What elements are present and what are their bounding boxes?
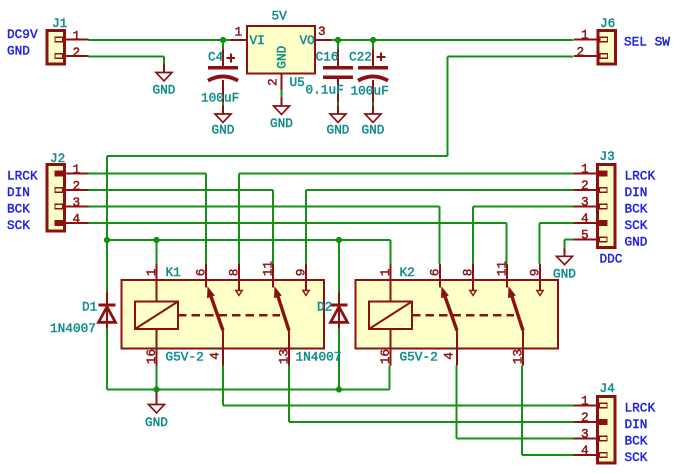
svg-text:5: 5 bbox=[581, 228, 589, 243]
svg-text:1N4007: 1N4007 bbox=[50, 321, 96, 336]
svg-text:G5V-2: G5V-2 bbox=[400, 349, 438, 364]
svg-text:1: 1 bbox=[581, 394, 589, 409]
svg-text:DIN: DIN bbox=[7, 185, 30, 200]
svg-text:G5V-2: G5V-2 bbox=[166, 349, 204, 364]
svg-text:1: 1 bbox=[581, 28, 589, 43]
svg-text:DC9V: DC9V bbox=[7, 27, 38, 42]
svg-text:11: 11 bbox=[495, 261, 510, 277]
svg-text:GND: GND bbox=[7, 43, 30, 58]
svg-text:9: 9 bbox=[294, 269, 309, 277]
svg-text:1: 1 bbox=[378, 268, 393, 276]
svg-text:3: 3 bbox=[581, 427, 589, 442]
svg-text:1: 1 bbox=[581, 162, 589, 177]
svg-text:0.1uF: 0.1uF bbox=[306, 83, 344, 98]
svg-text:1: 1 bbox=[73, 29, 81, 44]
svg-text:LRCK: LRCK bbox=[625, 400, 656, 415]
svg-text:DIN: DIN bbox=[625, 417, 648, 432]
svg-text:1N4007: 1N4007 bbox=[296, 349, 342, 364]
svg-text:C22: C22 bbox=[349, 49, 372, 64]
svg-text:LRCK: LRCK bbox=[625, 168, 656, 183]
svg-text:2: 2 bbox=[577, 45, 585, 60]
svg-text:100uF: 100uF bbox=[201, 91, 239, 106]
svg-text:GND: GND bbox=[327, 123, 350, 138]
svg-text:VO: VO bbox=[300, 33, 316, 48]
svg-text:J2: J2 bbox=[50, 151, 65, 166]
svg-text:C4: C4 bbox=[208, 49, 223, 64]
svg-text:6: 6 bbox=[428, 269, 443, 277]
svg-text:D1: D1 bbox=[82, 300, 98, 315]
svg-text:GND: GND bbox=[145, 415, 168, 430]
svg-text:4: 4 bbox=[442, 352, 457, 360]
svg-text:9: 9 bbox=[528, 269, 543, 277]
svg-text:4: 4 bbox=[581, 443, 589, 458]
svg-text:2: 2 bbox=[581, 178, 589, 193]
svg-text:13: 13 bbox=[511, 349, 526, 364]
svg-text:2: 2 bbox=[581, 410, 589, 425]
svg-text:16: 16 bbox=[144, 349, 159, 364]
svg-text:2: 2 bbox=[73, 45, 81, 60]
svg-text:GND: GND bbox=[212, 123, 235, 138]
svg-text:DDC: DDC bbox=[600, 251, 623, 266]
svg-text:C16: C16 bbox=[316, 49, 339, 64]
svg-text:SEL SW: SEL SW bbox=[624, 34, 670, 49]
svg-text:GND: GND bbox=[270, 116, 293, 131]
svg-text:11: 11 bbox=[261, 261, 276, 277]
svg-text:BCK: BCK bbox=[625, 433, 648, 448]
svg-text:BCK: BCK bbox=[625, 201, 648, 216]
svg-text:J4: J4 bbox=[600, 381, 615, 396]
svg-text:J3: J3 bbox=[600, 149, 615, 164]
svg-text:2: 2 bbox=[266, 78, 281, 86]
svg-text:GND: GND bbox=[625, 234, 648, 249]
svg-text:6: 6 bbox=[194, 269, 209, 277]
svg-text:LRCK: LRCK bbox=[7, 168, 38, 183]
svg-text:8: 8 bbox=[461, 269, 476, 277]
svg-text:GND: GND bbox=[362, 123, 385, 138]
svg-text:4: 4 bbox=[581, 211, 589, 226]
svg-text:8: 8 bbox=[227, 269, 242, 277]
svg-text:SCK: SCK bbox=[625, 450, 648, 465]
svg-text:3: 3 bbox=[318, 24, 326, 39]
svg-text:SCK: SCK bbox=[7, 218, 30, 233]
svg-text:K1: K1 bbox=[166, 265, 182, 280]
svg-text:SCK: SCK bbox=[625, 218, 648, 233]
svg-text:J6: J6 bbox=[600, 16, 615, 31]
svg-text:4: 4 bbox=[73, 212, 81, 227]
svg-text:2: 2 bbox=[73, 179, 81, 194]
svg-text:4: 4 bbox=[208, 352, 223, 360]
svg-text:16: 16 bbox=[378, 349, 393, 364]
svg-text:GND: GND bbox=[153, 83, 176, 98]
svg-text:5V: 5V bbox=[272, 8, 288, 23]
svg-text:1: 1 bbox=[144, 268, 159, 276]
svg-text:GND: GND bbox=[275, 46, 290, 69]
svg-text:D2: D2 bbox=[317, 300, 332, 315]
svg-text:3: 3 bbox=[73, 195, 81, 210]
svg-text:J1: J1 bbox=[52, 16, 68, 31]
svg-text:VI: VI bbox=[250, 33, 265, 48]
svg-text:1: 1 bbox=[235, 25, 243, 40]
svg-text:100uF: 100uF bbox=[351, 83, 389, 98]
svg-text:3: 3 bbox=[581, 195, 589, 210]
svg-text:BCK: BCK bbox=[7, 201, 30, 216]
svg-text:U5: U5 bbox=[290, 75, 305, 90]
svg-text:DIN: DIN bbox=[625, 185, 648, 200]
svg-text:1: 1 bbox=[73, 162, 81, 177]
svg-text:13: 13 bbox=[277, 349, 292, 364]
svg-text:K2: K2 bbox=[400, 265, 415, 280]
